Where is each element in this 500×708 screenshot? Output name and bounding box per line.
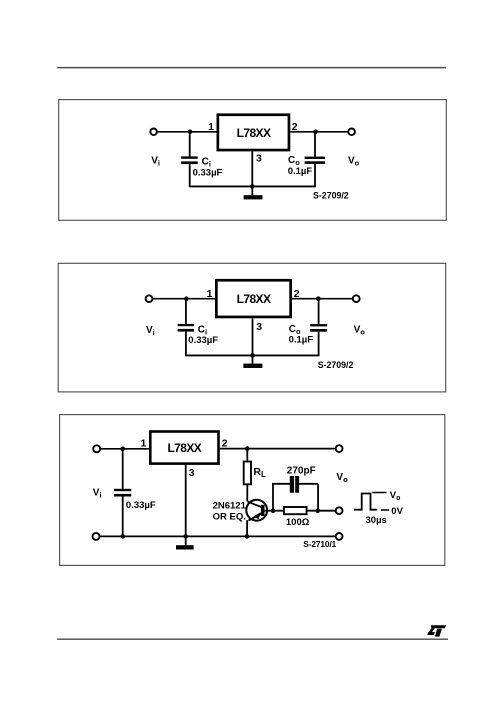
output terminal fig2 (353, 295, 360, 302)
ground fig1 (244, 186, 263, 199)
input terminal fig2 (146, 295, 153, 302)
pulse waveform fig3 (354, 494, 377, 510)
svg-text:S-2709/2: S-2709/2 (318, 360, 354, 370)
node pin3/rail junction fig2 (250, 353, 255, 358)
svg-text:1: 1 (208, 121, 214, 133)
svg-text:S-2710/1: S-2710/1 (303, 539, 336, 549)
wire input to pin 1 fig1 (157, 131, 218, 133)
svg-text:0.33µF: 0.33µF (193, 167, 223, 178)
svg-text:3: 3 (189, 467, 195, 479)
svg-text:S-2709/2: S-2709/2 (313, 190, 349, 200)
wire pin 2 to output fig2 (292, 298, 353, 300)
svg-text:3: 3 (256, 321, 262, 333)
bottom rail wire fig1 (190, 185, 315, 187)
svg-text:0.33µF: 0.33µF (126, 500, 156, 511)
wire emitter to rail fig3 (246, 520, 248, 536)
node input/Ci junction fig1 (188, 130, 193, 135)
figure 3 frame (60, 415, 445, 566)
figure 2 frame (58, 263, 446, 392)
wire to RL fig3 (246, 449, 248, 462)
output terminal top fig3 (336, 445, 343, 452)
wire pin 2 to output fig1 (290, 131, 348, 133)
wire input to pin 1 fig2 (153, 298, 217, 300)
resistor RL fig3 (244, 462, 251, 485)
resistor 100 ohm fig3 (284, 507, 307, 514)
svg-text:L78XX: L78XX (167, 441, 201, 455)
0V level tick fig3 (381, 509, 389, 511)
svg-text:1: 1 (207, 288, 213, 300)
ground fig3 (176, 536, 194, 549)
capacitor 270pF fig3 (272, 476, 318, 511)
wire pin 2 to output fig3 (220, 448, 336, 450)
top rule (57, 67, 446, 69)
regulator U2 L78XX fig2 (216, 280, 290, 317)
svg-text:270pF: 270pF (287, 465, 316, 476)
node pin3/rail junction fig1 (250, 184, 255, 189)
svg-text:0.33µF: 0.33µF (188, 335, 218, 346)
svg-text:OR EQ.: OR EQ. (213, 512, 246, 523)
output terminal middle fig3 (336, 507, 343, 514)
node output/Co junction fig2 (316, 296, 321, 301)
svg-text:L78XX: L78XX (237, 292, 271, 306)
Vo level tick fig3 (372, 492, 386, 494)
output terminal bottom fig3 (336, 533, 343, 540)
svg-text:L78XX: L78XX (237, 126, 271, 140)
regulator U1 L78XX fig1 (218, 115, 289, 150)
output terminal fig1 (348, 129, 355, 136)
svg-text:1: 1 (140, 437, 146, 449)
svg-text:3: 3 (256, 153, 262, 165)
wire R100 to output fig3 (307, 510, 336, 512)
wire input branch lower fig3 (122, 497, 124, 537)
capacitor Co fig1 (305, 132, 325, 187)
wire pin 3 fig1 (251, 151, 253, 186)
input terminal fig1 (150, 129, 157, 136)
capacitor Ci fig2 (178, 299, 194, 357)
wire pin 3 fig2 (252, 318, 254, 355)
node input junction fig3 (120, 447, 125, 452)
svg-text:2: 2 (222, 437, 228, 449)
node input/rail junction fig3 (120, 534, 125, 539)
input terminal bottom fig3 (93, 533, 100, 540)
bottom rail wire fig2 (186, 354, 319, 356)
wire RL to collector fig3 (246, 484, 248, 501)
capacitor Ci fig1 (181, 132, 198, 187)
node pin3/rail junction fig3 (183, 534, 188, 539)
transistor Q1 2N6121 fig3 (246, 500, 267, 521)
svg-text:0V: 0V (391, 506, 403, 517)
node output/Co junction fig1 (313, 130, 318, 135)
capacitor Co fig2 (310, 299, 327, 357)
svg-text:30µs: 30µs (366, 515, 387, 526)
node input/Ci junction fig2 (184, 296, 189, 301)
ST logo (427, 625, 446, 636)
node base/feedback junction fig3 (271, 508, 276, 513)
input terminal top fig3 (93, 445, 100, 452)
node pin2/RL junction fig3 (245, 446, 250, 451)
node emitter/rail junction fig3 (245, 534, 250, 539)
figure 1 frame (59, 100, 447, 221)
wire pin 3 fig3 (185, 465, 187, 537)
svg-text:0.1µF: 0.1µF (289, 334, 314, 345)
ground fig2 (243, 355, 262, 368)
capacitor 0.33uF fig3 (114, 489, 131, 497)
wire input to pin 1 fig3 (100, 448, 150, 450)
wire input branch upper fig3 (122, 449, 124, 489)
node feedback/output junction fig3 (315, 508, 320, 513)
svg-text:100Ω: 100Ω (286, 517, 310, 528)
wire base fig3 (265, 510, 274, 512)
wire base to R100 fig3 (273, 510, 284, 512)
bottom rule (57, 638, 448, 640)
svg-text:2N6121: 2N6121 (213, 501, 247, 512)
svg-text:0.1µF: 0.1µF (288, 166, 313, 177)
regulator U3 L78XX fig3 (150, 432, 218, 464)
bottom rail wire fig3 (100, 535, 336, 537)
